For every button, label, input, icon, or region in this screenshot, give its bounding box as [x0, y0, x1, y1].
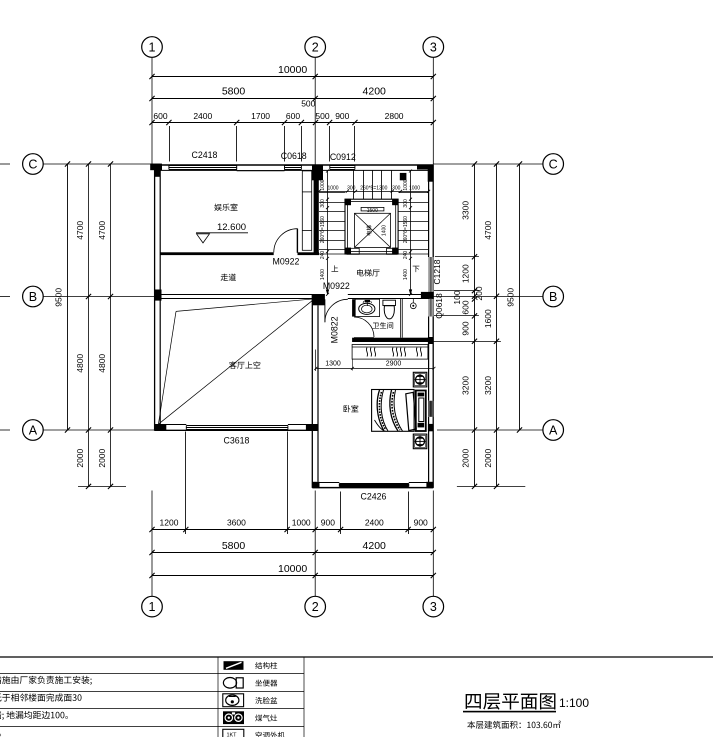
grid bubble A left	[23, 420, 44, 441]
level triangle	[197, 234, 210, 243]
stair up arrow head	[326, 290, 329, 295]
column A grid2	[306, 424, 318, 431]
grid line A right	[437, 429, 543, 431]
floor drain	[410, 303, 416, 309]
svg-text:1400: 1400	[403, 269, 409, 280]
title underline	[463, 711, 556, 713]
column A left	[154, 424, 166, 430]
grid line C right	[433, 163, 543, 165]
legend row lines	[0, 673, 304, 675]
corridor south wall B double line	[155, 294, 313, 296]
bottom dim row1 segments	[152, 529, 433, 531]
top exterior wall inner line	[155, 169, 237, 171]
bottom dim row2 5800 4200	[152, 552, 433, 554]
level underline	[196, 232, 248, 234]
svg-text:240: 240	[320, 251, 326, 260]
legend note row3	[0, 693, 82, 701]
legend vertical divider right	[303, 657, 305, 737]
room label bedroom	[344, 405, 359, 412]
svg-text:3300: 3300	[461, 201, 471, 220]
column bedroom SW	[312, 482, 319, 488]
legend symbol toilet	[223, 678, 236, 689]
svg-text:600: 600	[461, 300, 471, 314]
legend note row2	[0, 676, 92, 685]
column B right wall	[421, 292, 433, 299]
elevator door rect	[361, 207, 384, 211]
svg-text:1: 1	[149, 41, 156, 55]
svg-text:4700: 4700	[97, 221, 107, 240]
svg-text:2400: 2400	[193, 111, 212, 121]
svg-text:1000: 1000	[292, 518, 311, 528]
svg-text:Q0618: Q0618	[434, 293, 444, 319]
grid line 1 bottom	[151, 491, 153, 597]
legend label washbasin	[255, 697, 277, 704]
room label elevator hall	[357, 269, 380, 276]
grid bubble B right	[543, 286, 564, 307]
svg-text:2000: 2000	[97, 448, 107, 467]
room label corridor	[221, 274, 236, 281]
svg-text:1400: 1400	[320, 269, 326, 280]
bedroom right window gray	[428, 401, 434, 417]
grid bubble 2 top	[305, 37, 326, 58]
window C3618	[186, 425, 288, 427]
svg-text:10000: 10000	[278, 64, 307, 76]
column bedroom SE	[426, 482, 433, 488]
grid line 2 top	[314, 57, 316, 165]
wardrobe hangers	[366, 348, 367, 357]
title text	[466, 693, 556, 709]
svg-text:2: 2	[312, 41, 319, 55]
top flight treads	[353, 170, 355, 199]
legend note row4	[0, 711, 68, 720]
svg-text:900: 900	[335, 111, 349, 121]
svg-text:4800: 4800	[75, 354, 85, 373]
legend symbol AC outdoor unit	[223, 729, 244, 737]
door M0822 arc	[354, 317, 374, 337]
top exterior wall outer line	[155, 164, 434, 166]
svg-text:2: 2	[312, 600, 319, 614]
window C2426	[339, 483, 409, 485]
door M0922 entertainment leaf	[296, 229, 298, 253]
nightstand top	[413, 372, 427, 387]
column top grid2	[312, 165, 323, 181]
stairwell west wall	[314, 170, 319, 254]
bottom dim extension lines	[185, 432, 187, 535]
svg-text:C: C	[28, 158, 37, 172]
shaft bottom jambs	[347, 248, 359, 254]
wall segment outline between windows	[237, 165, 285, 170]
entertainment room south wall	[160, 252, 274, 255]
legend symbol structural column	[224, 661, 244, 670]
living void diagonal c	[158, 299, 314, 424]
room label bathroom	[373, 322, 394, 329]
svg-text:500: 500	[301, 99, 315, 109]
bathroom south wall	[352, 338, 429, 342]
legend label structural column	[255, 662, 277, 669]
svg-text:2000: 2000	[75, 448, 85, 467]
svg-text:1200: 1200	[461, 264, 471, 283]
door M0822 leaf	[354, 337, 374, 339]
washbasin bowl	[359, 303, 375, 314]
svg-text:900: 900	[461, 321, 471, 335]
column B left	[154, 290, 162, 301]
grid line B right	[433, 296, 543, 298]
stair horizontal dim line	[319, 191, 429, 193]
grid bubble C right	[543, 154, 564, 175]
svg-text:3: 3	[430, 41, 437, 55]
bottom dim row3 10000	[152, 575, 433, 577]
stair left vertical dim line	[327, 171, 329, 294]
column bathroom SE right wall	[428, 337, 434, 344]
svg-text:1:100: 1:100	[559, 696, 589, 710]
svg-text:9500: 9500	[54, 288, 64, 307]
svg-text:1400: 1400	[382, 225, 388, 236]
bed outline	[372, 390, 415, 432]
svg-text:5800: 5800	[222, 85, 246, 97]
bed pillow	[406, 392, 416, 430]
window C0912	[330, 165, 355, 167]
svg-text:3: 3	[430, 600, 437, 614]
stair right vertical dim line	[410, 171, 412, 294]
grid bubble 1 top	[142, 37, 163, 58]
svg-text:3200: 3200	[483, 376, 493, 395]
svg-text:300: 300	[403, 199, 409, 208]
grid line 3 bottom	[432, 491, 434, 597]
svg-text:C2418: C2418	[192, 150, 218, 160]
label down	[413, 266, 420, 272]
legend symbol washbasin	[223, 694, 244, 707]
svg-text:1600: 1600	[483, 309, 493, 328]
svg-text:C3618: C3618	[224, 436, 250, 446]
door M0922 hall leaf	[324, 299, 326, 322]
svg-text:600: 600	[153, 111, 167, 121]
grid line B left	[43, 296, 154, 298]
svg-text:A: A	[549, 424, 558, 438]
grid line 2 bottom	[314, 491, 316, 597]
stair landing line right	[398, 253, 429, 255]
svg-text:1700: 1700	[251, 111, 270, 121]
grid bubble B left	[23, 286, 44, 307]
nightstand bottom	[413, 434, 427, 449]
svg-text:1000: 1000	[403, 179, 409, 190]
svg-text:260*6=1560: 260*6=1560	[403, 216, 409, 243]
top dim row3 segments	[152, 122, 433, 124]
svg-text:1500: 1500	[367, 208, 378, 214]
legend note row5	[0, 734, 1, 737]
svg-text:B: B	[549, 290, 557, 304]
toilet tank	[383, 300, 396, 305]
svg-text:2800: 2800	[385, 111, 404, 121]
label up	[331, 265, 338, 271]
shaft corner columns	[345, 199, 351, 205]
legend top line	[0, 656, 713, 658]
toilet bowl	[384, 306, 394, 319]
column stair top small	[400, 173, 407, 180]
svg-text:240: 240	[403, 251, 409, 260]
svg-text:1KT: 1KT	[226, 733, 237, 737]
bathroom inner wall	[400, 299, 402, 338]
grid bubble C left	[23, 154, 44, 175]
grid line 1 top	[151, 57, 153, 165]
svg-text:2000: 2000	[461, 448, 471, 467]
svg-text:4800: 4800	[97, 354, 107, 373]
top dim row1 10000	[152, 76, 433, 78]
living void diagonal b	[158, 311, 176, 424]
right dim chain windows	[474, 164, 476, 486]
left dim chain inner	[88, 164, 90, 486]
svg-text:2900: 2900	[386, 360, 402, 367]
cab label elevator rotated	[366, 225, 371, 235]
grid bubble 1 bottom	[142, 596, 163, 617]
svg-text:C2426: C2426	[361, 492, 387, 502]
svg-text:300: 300	[347, 185, 356, 191]
svg-text:1200: 1200	[160, 518, 179, 528]
grid bubble A right	[543, 420, 564, 441]
duct shaft left of stair wall	[302, 171, 311, 250]
svg-text:C0618: C0618	[281, 151, 307, 161]
svg-text:200: 200	[474, 286, 484, 300]
stair down arrow head	[409, 290, 412, 295]
svg-text:4700: 4700	[75, 221, 85, 240]
bottom wall left wing (A)	[155, 429, 318, 431]
svg-text:260*6=1560: 260*6=1560	[320, 216, 326, 243]
svg-text:2400: 2400	[365, 518, 384, 528]
legend label AC outdoor unit	[256, 732, 285, 737]
window Q0618 right wall gray	[428, 299, 433, 317]
svg-text:260*5=1300: 260*5=1300	[360, 185, 387, 191]
left dim chain 9500	[67, 164, 69, 430]
right dim chain 9500	[519, 164, 521, 430]
grid bubble 3 bottom	[423, 596, 444, 617]
left exterior wall	[154, 165, 156, 431]
right exterior wall	[432, 165, 434, 488]
legend vertical divider left	[217, 657, 219, 737]
elevator cab diagonal 1	[355, 213, 391, 247]
svg-text:9500: 9500	[506, 288, 516, 307]
bed blanket waves	[377, 390, 384, 431]
column top-left corner	[150, 164, 162, 171]
wardrobe	[352, 345, 428, 360]
bed headboard	[416, 391, 426, 432]
room label entertainment	[214, 204, 237, 211]
bedroom dim extension stubs	[315, 350, 317, 372]
svg-text:4200: 4200	[363, 540, 387, 552]
svg-text:4200: 4200	[363, 85, 387, 97]
svg-text:4700: 4700	[483, 221, 493, 240]
grid line 3 top	[432, 57, 434, 165]
top dim row2 5800 4200	[152, 98, 433, 100]
grid line C left	[43, 163, 154, 165]
south wall stub right of door	[298, 252, 320, 255]
column B grid2	[312, 294, 325, 305]
right dim extension stubs	[435, 256, 479, 258]
svg-text:3600: 3600	[227, 518, 246, 528]
window C1218 right wall gray	[428, 257, 433, 292]
washbasin niche	[355, 299, 379, 316]
svg-text:500: 500	[315, 111, 329, 121]
svg-text:300: 300	[392, 185, 401, 191]
column top-right corner	[417, 165, 433, 170]
column A right wall	[428, 424, 434, 431]
svg-text:C: C	[549, 158, 558, 172]
left dim bottom stub	[78, 486, 126, 488]
legend label toilet	[255, 680, 277, 687]
bathroom west wall upper	[352, 299, 355, 316]
elevator cab	[355, 213, 391, 247]
svg-text:300: 300	[320, 199, 326, 208]
stair landing line left	[319, 253, 345, 255]
room label living void	[229, 361, 260, 368]
grid bubble 2 bottom	[305, 596, 326, 617]
svg-text:M0922: M0922	[323, 281, 350, 291]
wing wall on grid 2 (bedroom west wall)	[311, 294, 313, 488]
svg-text:C0912: C0912	[330, 152, 356, 162]
svg-text:2000: 2000	[483, 448, 493, 467]
legend symbol gas stove	[223, 711, 244, 724]
living void diagonal a	[176, 299, 315, 312]
svg-text:12.600: 12.600	[217, 222, 246, 233]
right flight treads	[398, 192, 428, 194]
grid bubble 3 top	[423, 37, 444, 58]
svg-text:600: 600	[286, 111, 300, 121]
bedroom bottom wall	[312, 487, 433, 489]
legend label gas stove	[255, 714, 277, 721]
svg-text:3200: 3200	[461, 376, 471, 395]
svg-text:1: 1	[149, 600, 156, 614]
svg-text:M0922: M0922	[273, 257, 300, 267]
svg-text:1000: 1000	[327, 185, 338, 191]
elevator cab diagonal 2	[355, 213, 391, 247]
svg-text:M0822: M0822	[330, 316, 340, 343]
svg-text:10000: 10000	[278, 563, 307, 575]
svg-text:B: B	[29, 290, 37, 304]
grid line A left	[43, 429, 154, 431]
svg-text:900: 900	[321, 518, 335, 528]
B wall right section double line	[348, 294, 429, 296]
left flight treads	[319, 192, 345, 194]
svg-text:900: 900	[414, 518, 428, 528]
door M0922 entertainment arc	[274, 229, 298, 253]
washbasin tap	[365, 300, 370, 302]
window C2418	[169, 165, 237, 167]
door M0922 hall arc	[325, 299, 348, 322]
subtitle area text	[467, 721, 560, 729]
svg-text:1000: 1000	[320, 179, 326, 190]
elevator shaft walls	[345, 199, 398, 254]
bedroom dim line 1300 2900	[316, 367, 434, 369]
svg-text:A: A	[29, 424, 38, 438]
window C0618 top	[285, 165, 302, 167]
top dim extension lines	[169, 126, 171, 162]
svg-text:5800: 5800	[222, 540, 246, 552]
right dim chain mid	[496, 164, 498, 486]
svg-text:1300: 1300	[325, 360, 341, 367]
